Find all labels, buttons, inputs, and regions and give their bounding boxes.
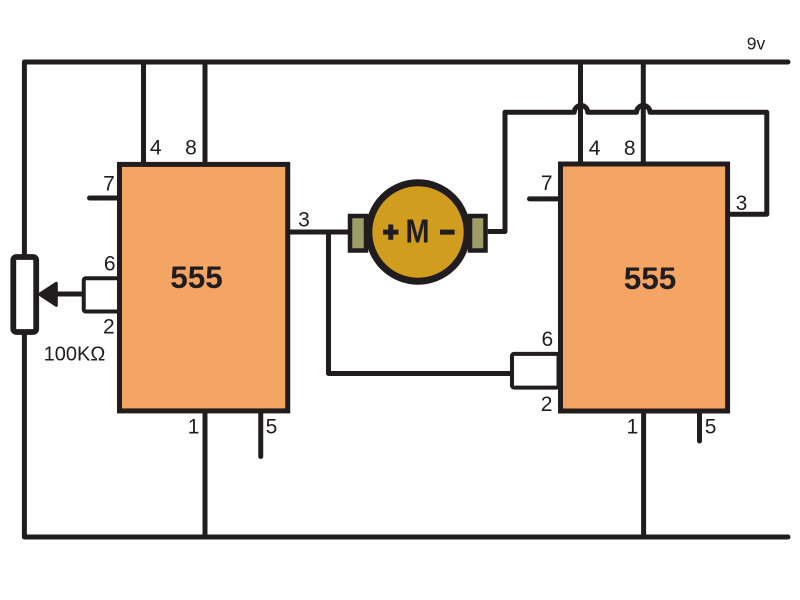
svg-text:3: 3: [736, 192, 748, 215]
svg-text:2: 2: [103, 315, 115, 338]
svg-text:1: 1: [188, 415, 200, 438]
svg-text:1: 1: [627, 416, 639, 439]
svg-text:6: 6: [541, 328, 553, 351]
svg-text:555: 555: [170, 259, 223, 295]
svg-text:4: 4: [150, 137, 162, 160]
svg-text:100KΩ: 100KΩ: [44, 344, 106, 366]
svg-text:7: 7: [103, 173, 115, 196]
svg-text:8: 8: [624, 137, 636, 160]
svg-text:3: 3: [298, 209, 310, 232]
svg-text:5: 5: [266, 415, 278, 438]
svg-text:7: 7: [541, 172, 553, 195]
svg-text:6: 6: [104, 253, 116, 276]
svg-text:9v: 9v: [747, 34, 766, 54]
svg-text:5: 5: [705, 415, 717, 438]
svg-text:2: 2: [541, 393, 553, 416]
svg-text:555: 555: [624, 260, 677, 296]
svg-text:4: 4: [589, 137, 601, 160]
svg-text:8: 8: [185, 137, 197, 160]
svg-text:M: M: [406, 212, 430, 249]
